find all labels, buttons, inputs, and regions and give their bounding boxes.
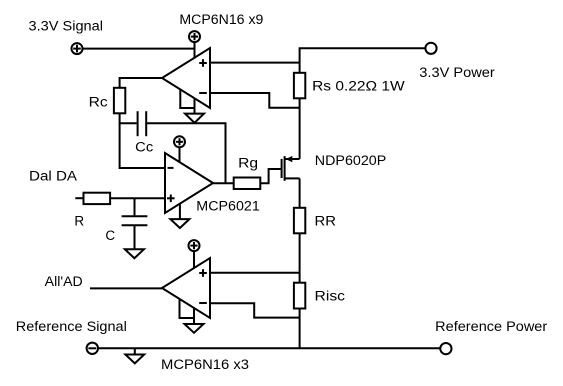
wire reference rail	[98, 347, 440, 349]
svg-text:MCP6021: MCP6021	[196, 199, 259, 214]
resistor Rc	[114, 88, 125, 114]
svg-text:Cc: Cc	[135, 139, 153, 154]
wire U3 V+ pin	[193, 251, 195, 268]
op-amp U3 positive supply terminal	[189, 240, 200, 251]
wire 3.3V signal to U1 V+	[83, 48, 195, 50]
ground U2	[170, 219, 189, 228]
wire C to ground	[134, 225, 136, 249]
svg-text:All'AD: All'AD	[45, 274, 83, 289]
svg-text:Risc: Risc	[315, 288, 346, 303]
wire Rc to Cc	[120, 113, 137, 123]
wire R to U2 + input	[110, 197, 165, 199]
wire U1 output to Rc	[120, 78, 162, 88]
wire U1 - input feedback to Rs bottom	[210, 93, 300, 108]
svg-text:3.3V Power: 3.3V Power	[419, 65, 495, 80]
wire Rs to Q1 source	[299, 98, 301, 159]
op-amp U2 positive supply terminal	[174, 136, 185, 147]
svg-text:MCP6N16 x3: MCP6N16 x3	[161, 357, 249, 372]
terminal 3.3V Power	[425, 43, 436, 54]
capacitor C	[122, 216, 148, 225]
svg-text:Rs 0.22Ω 1W: Rs 0.22Ω 1W	[312, 79, 405, 94]
terminal Reference Power	[440, 343, 451, 354]
wire U2 output to Rg	[213, 182, 234, 184]
resistor Risc	[294, 283, 305, 309]
svg-text:Reference Power: Reference Power	[435, 319, 548, 334]
op-amp U1 positive supply terminal	[189, 31, 200, 42]
op-amp U3 MCP6N16 (left-pointing)	[162, 258, 210, 318]
op-amp U2 MCP6021 (right-pointing)	[165, 153, 213, 213]
wire U3 + input to rail	[210, 272, 300, 274]
ground C	[125, 249, 144, 258]
wire U3 output	[90, 287, 162, 289]
wire Q1 drain to RR	[299, 178, 301, 207]
wire Risc to reference rail	[299, 309, 301, 349]
svg-text:3.3V Signal: 3.3V Signal	[29, 18, 104, 33]
svg-text:MCP6N16 x9: MCP6N16 x9	[179, 12, 263, 27]
wire U2 V+ pin	[179, 147, 181, 162]
resistor R	[84, 193, 111, 204]
resistor Rs	[294, 73, 305, 99]
capacitor Cc	[138, 111, 147, 136]
transistor Q1 NDP6020P P-MOSFET	[282, 156, 300, 181]
wire U2 V- pin	[179, 204, 181, 219]
wire U3 - input feedback to rail below Risc	[210, 303, 300, 317]
resistor RR	[294, 208, 305, 234]
wire Cc node to U2 inverting input	[120, 123, 165, 168]
wire 3.3V power rail top	[300, 48, 426, 73]
wire U1 + input to 3.3V rail	[210, 62, 300, 64]
svg-text:RR: RR	[315, 213, 337, 228]
wire Rg to Q1 gate	[260, 169, 281, 183]
svg-text:Dal DA: Dal DA	[29, 169, 77, 184]
ground reference rail	[125, 348, 144, 363]
svg-text:Rc: Rc	[89, 95, 108, 110]
op-amp U1 MCP6N16 (left-pointing)	[162, 48, 210, 108]
wire + node to capacitor C	[134, 198, 136, 216]
svg-text:R: R	[74, 213, 84, 228]
ground U3	[185, 324, 204, 333]
resistor Rg	[234, 178, 261, 190]
svg-text:C: C	[105, 228, 115, 243]
terminal Reference Signal input	[87, 343, 98, 354]
wire U1 V+ pin	[194, 42, 196, 58]
svg-text:Reference Signal: Reference Signal	[16, 319, 127, 334]
wire U1 V- pin to ground	[179, 89, 194, 113]
svg-text:NDP6020P: NDP6020P	[315, 153, 387, 168]
wire Dal DA stub	[75, 197, 83, 199]
wire Cc to U2 output node	[146, 123, 225, 183]
wire RR to Risc	[299, 233, 301, 282]
ground U1	[185, 114, 204, 123]
terminal 3.3V Signal input	[72, 43, 83, 54]
wire U3 V- pin to ground	[179, 299, 195, 325]
svg-text:Rg: Rg	[238, 155, 258, 170]
